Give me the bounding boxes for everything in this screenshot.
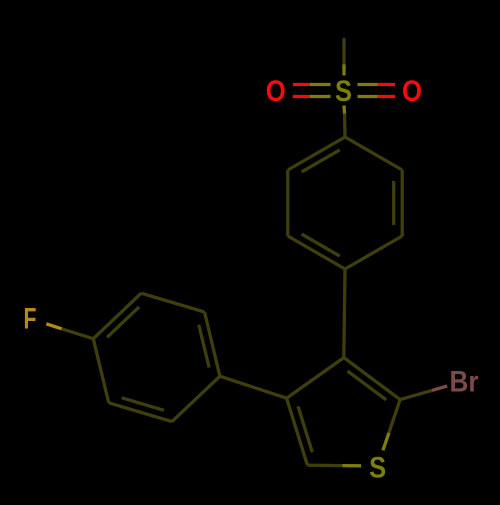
thiophene edge C4-C5 inner double line [298, 406, 312, 452]
ring1 benzene edge A4-A5 inner double line [302, 234, 340, 256]
svg-text:S: S [369, 452, 386, 485]
bond S=O right upper line (S half) [358, 83, 378, 86]
thiophene bond S-C5 (C half) [307, 464, 342, 468]
ring2 benzene edge V4-B2 [172, 376, 220, 421]
ring2 benzene edge V1-T1 [93, 293, 141, 339]
svg-text:Br: Br [450, 365, 479, 398]
bond S=O left upper line (S half) [310, 83, 331, 86]
ring2 benzene edge B2-B1 [109, 403, 172, 422]
ring2 benzene edge T1-T2 [141, 293, 204, 312]
ring1 benzene edge A2-A3 inner double line [392, 181, 395, 225]
bond C2-Br (C half) [400, 390, 432, 399]
svg-text:S: S [335, 75, 352, 108]
bond S=O left lower line (O half) [293, 95, 310, 98]
ring2 benzene edge V1-T1 inner double line [107, 307, 139, 337]
ring1 benzene edge A2-A3 [401, 170, 404, 236]
ring2 benzene edge T2-V4 [205, 312, 220, 376]
bond ring1 to thiophene C3 [344, 269, 345, 358]
ring1 benzene edge A3-A4 [345, 236, 402, 269]
bond F-C (F half) [46, 324, 61, 329]
thiophene edge C2-C3 [344, 358, 400, 400]
ring2 benzene edge B1-V1 [93, 339, 108, 403]
bond S=O right upper line (O half) [378, 83, 395, 86]
ring1 benzene edge A6-A1 inner double line [302, 150, 340, 172]
ring2 benzene edge B2-B1 inner double line [122, 398, 164, 411]
bond S=O right lower line (O half) [378, 95, 395, 98]
thiophene bond S-C5 (S half) [343, 464, 362, 467]
thiophene edge C4-C5 [287, 398, 308, 465]
thiophene edge C2-C3 inner double line [348, 371, 387, 400]
bond S=O right lower line (S half) [358, 95, 378, 98]
ring1 benzene edge A4-A5 [288, 236, 345, 269]
thiophene edge C3-C4 [287, 358, 344, 399]
svg-text:O: O [266, 75, 286, 108]
bond S=O left upper line (O half) [293, 83, 310, 86]
ring2 benzene edge T2-V4 inner double line [199, 325, 209, 368]
ring1 benzene edge A6-A1 [288, 137, 345, 170]
ring1 benzene edge A1-A2 [345, 137, 402, 170]
thiophene bond S-C2 (C half) [389, 400, 400, 433]
wire methyl C-S bond (S half) [342, 64, 345, 75]
bond S=O left lower line (S half) [310, 95, 331, 98]
svg-text:O: O [402, 75, 422, 108]
wire S-C(aryl) bond (C half) [343, 114, 347, 137]
wire S-C(aryl) bond (S half) [342, 106, 346, 114]
bond ring2 V4 to thiophene C4 [220, 376, 287, 398]
bond F-C (C half) [62, 329, 94, 339]
svg-text:F: F [24, 303, 37, 336]
wire methyl C-S bond (C half) [342, 38, 345, 64]
thiophene bond S-C2 (S half) [383, 433, 389, 451]
ring1 benzene edge A5-A6 [286, 170, 289, 236]
bond C2-Br (Br half) [432, 386, 447, 390]
